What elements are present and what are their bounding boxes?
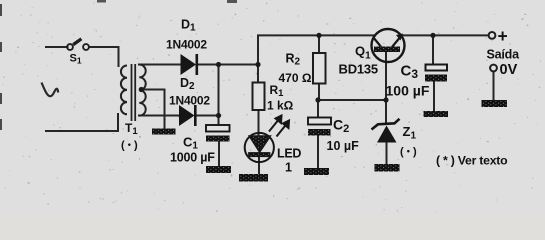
wire: C2 bottom lead to ground xyxy=(317,136,319,169)
node: transformer center tap xyxy=(139,87,144,92)
wire: zener bottom lead to ground xyxy=(386,143,388,164)
ground: C2 xyxy=(304,168,329,175)
resistor R1 xyxy=(253,83,265,111)
wire: LED cathode to ground xyxy=(258,157,260,174)
node: R2-C2 junction xyxy=(315,97,320,102)
node: rectifier output / rail corner xyxy=(255,62,260,67)
wire: C3 top lead xyxy=(432,35,434,63)
wire: AC top stub to S1 xyxy=(46,46,68,48)
node: rail / C3 xyxy=(430,33,435,38)
svg-text:1N4002: 1N4002 xyxy=(166,38,207,52)
transformer T1 core xyxy=(132,64,136,121)
ground: C3 xyxy=(424,111,449,117)
wire: secondary top to diode D1 anode xyxy=(139,64,181,66)
output terminal 0V xyxy=(490,65,497,72)
svg-text:1000 µF: 1000 µF xyxy=(170,151,215,165)
output terminal + xyxy=(489,32,496,39)
capacitor C3 xyxy=(425,65,447,82)
svg-text:Saída: Saída xyxy=(487,48,521,62)
wire: center tap to ground xyxy=(143,90,165,129)
svg-text:+: + xyxy=(498,26,508,46)
capacitor C2 xyxy=(308,118,331,136)
wire: secondary bottom to diode D2 anode xyxy=(139,115,179,117)
ground: LED xyxy=(239,174,268,182)
diode D1 xyxy=(181,54,197,75)
capacitor C1 xyxy=(206,125,230,166)
svg-text:100 µF: 100 µF xyxy=(386,83,430,99)
switch S1 xyxy=(67,39,89,50)
node: D1 cathode / C1 junction xyxy=(216,62,221,67)
wire: C2 top lead xyxy=(317,100,319,118)
wire: D1 cathode to corner node xyxy=(198,64,259,66)
LED arrows xyxy=(269,116,289,137)
node: rail / R2 xyxy=(316,33,321,38)
wire: C3 bottom lead to ground xyxy=(433,80,435,111)
svg-text:470 Ω: 470 Ω xyxy=(279,71,312,85)
wire: R1 bottom lead to LED xyxy=(258,110,260,136)
svg-text:LED: LED xyxy=(277,147,301,161)
svg-text:10 µF: 10 µF xyxy=(327,139,360,153)
wire: top rail left segment xyxy=(319,34,375,36)
wire: S1 to transformer primary top xyxy=(90,47,119,66)
wire: Q1 base lead xyxy=(385,52,387,100)
svg-text:BD135: BD135 xyxy=(339,62,378,77)
wire: top rail right segment xyxy=(401,34,489,36)
AC source sine symbol xyxy=(42,83,59,97)
node: D2 cathode joins C1 vertical xyxy=(216,113,221,118)
wire: R2 bottom lead xyxy=(318,84,320,101)
LED LED1 xyxy=(245,133,274,162)
ground: zener xyxy=(375,164,400,172)
transformer T1 primary winding xyxy=(121,66,127,115)
svg-text:1 kΩ: 1 kΩ xyxy=(267,99,294,113)
resistor R2 xyxy=(313,53,326,84)
wire: R2 top lead xyxy=(318,35,320,53)
node: base-zener junction xyxy=(383,97,388,102)
transistor Q1 xyxy=(372,29,405,62)
ground: C1 xyxy=(206,166,231,173)
wire: rectifier node vertical / rail corner to R1 xyxy=(258,35,319,82)
wire: zener top lead xyxy=(385,100,387,122)
wire: D2 cathode to C1 vertical xyxy=(197,115,219,117)
svg-text:0V: 0V xyxy=(500,62,518,78)
svg-text:1N4002: 1N4002 xyxy=(169,94,210,108)
wire: R1 top lead xyxy=(257,65,259,83)
svg-text:( * ) Ver texto: ( * ) Ver texto xyxy=(436,154,508,168)
zener diode Z1 xyxy=(372,119,400,143)
diode D2 xyxy=(179,105,195,126)
ground: 0V xyxy=(482,100,508,107)
svg-text:1: 1 xyxy=(285,161,292,175)
wire: C1 branch vertical xyxy=(218,65,220,126)
wire: AC bottom stub to transformer primary bottom xyxy=(46,114,118,131)
ground: center tap xyxy=(152,129,176,135)
transformer T1 secondary winding xyxy=(139,65,145,116)
wire: 0V terminal to ground xyxy=(493,72,495,101)
wire: base node horizontal xyxy=(318,99,386,101)
